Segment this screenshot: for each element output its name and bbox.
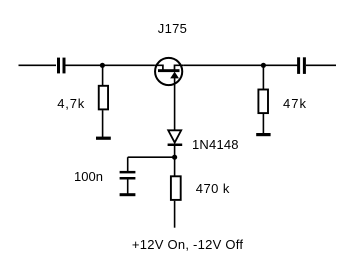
- wire: 47k to ground: [262, 114, 264, 135]
- node A (junction left): [100, 63, 105, 68]
- capacitor C-out (right coupling cap): [297, 57, 306, 74]
- ground (left): [96, 137, 111, 140]
- svg-text:1N4148: 1N4148: [192, 137, 239, 152]
- wire: 100n bottom plate to ground: [127, 180, 129, 195]
- svg-text:47k: 47k: [283, 96, 307, 111]
- wire: JFET gate down to diode: [174, 78, 176, 130]
- wire: node A down to resistor 4,7k: [102, 65, 104, 85]
- svg-text:470 k: 470 k: [196, 181, 230, 196]
- wire: left cap to node A: [66, 64, 103, 66]
- resistor 47k: [258, 90, 268, 114]
- svg-text:100n: 100n: [74, 169, 103, 184]
- wire: down to 100n cap top plate: [127, 157, 129, 171]
- wire: output lead right: [306, 64, 336, 66]
- wire: node C to right cap: [263, 64, 297, 66]
- wire: node B down to 470k: [174, 157, 176, 175]
- wire: diode to node B: [174, 146, 176, 158]
- wire: node B left to 100n cap: [128, 156, 175, 158]
- ground (right): [256, 133, 270, 136]
- wire: 470k down to control lead: [174, 201, 176, 228]
- transistor J175 (P-JFET): [154, 58, 183, 85]
- diode 1N4148 (cathode down): [168, 130, 183, 146]
- capacitor 100n: [120, 171, 136, 180]
- node C (junction right): [261, 63, 266, 68]
- resistor 4,7k: [99, 86, 108, 110]
- svg-text:J175: J175: [158, 21, 187, 36]
- wire: node C down to 47k: [262, 65, 264, 89]
- wire: node A to JFET source: [102, 64, 154, 66]
- node B (junction at diode/cap/resistor): [172, 155, 177, 160]
- capacitor C-in (left coupling cap): [57, 58, 66, 74]
- svg-text:4,7k: 4,7k: [57, 96, 85, 111]
- svg-text:+12V On, -12V Off: +12V On, -12V Off: [132, 237, 243, 252]
- wire: input lead left: [19, 64, 57, 66]
- wire: resistor 4,7k to ground: [102, 110, 104, 138]
- wire: JFET drain to node C: [183, 64, 263, 66]
- resistor 470 k: [171, 176, 181, 200]
- ground (100n): [120, 193, 136, 196]
